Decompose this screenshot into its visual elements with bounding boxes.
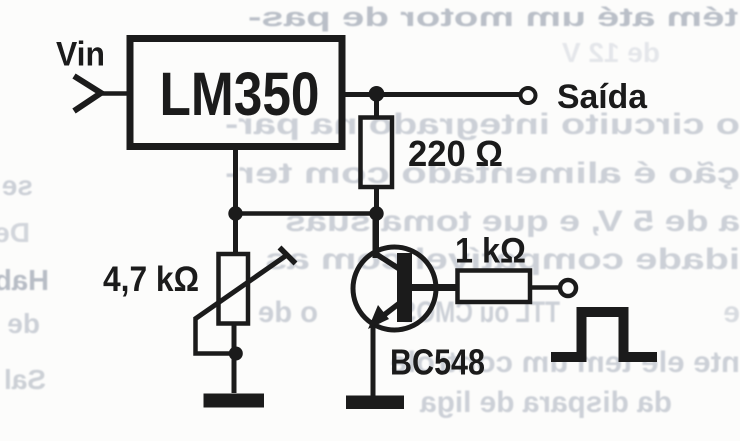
svg-text:de: de bbox=[7, 308, 40, 339]
svg-text:da dispara de liga: da dispara de liga bbox=[420, 386, 672, 419]
svg-text:tém até um motor de pas-: tém até um motor de pas- bbox=[248, 2, 738, 32]
svg-text:De: De bbox=[0, 217, 30, 248]
svg-text:Hab: Hab bbox=[0, 265, 49, 297]
svg-text:BC548: BC548 bbox=[390, 342, 485, 383]
svg-text:4,7 kΩ: 4,7 kΩ bbox=[103, 260, 199, 299]
svg-text:Vin: Vin bbox=[56, 36, 105, 74]
svg-text:de 12 V: de 12 V bbox=[562, 37, 660, 68]
svg-text:1 kΩ: 1 kΩ bbox=[455, 232, 526, 271]
svg-text:o de: o de bbox=[258, 296, 318, 329]
svg-text:se: se bbox=[2, 170, 33, 201]
svg-text:Sal: Sal bbox=[4, 364, 46, 395]
svg-text:220 Ω: 220 Ω bbox=[408, 133, 503, 174]
svg-text:LM350: LM350 bbox=[160, 60, 320, 128]
svg-text:e: e bbox=[723, 296, 740, 329]
svg-text:Saída: Saída bbox=[557, 78, 648, 116]
